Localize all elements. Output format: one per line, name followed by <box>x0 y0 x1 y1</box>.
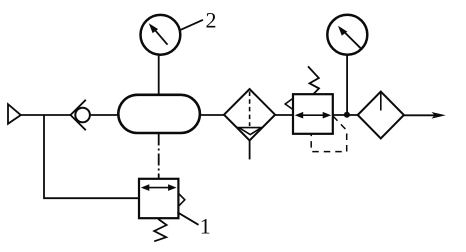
svg-text:2: 2 <box>206 8 217 33</box>
svg-text:1: 1 <box>200 214 211 239</box>
